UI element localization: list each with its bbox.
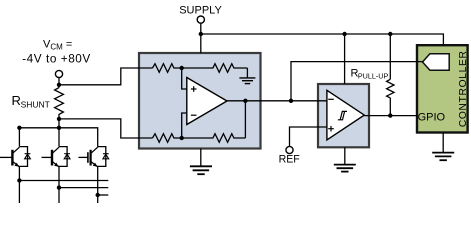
wire supply rail	[201, 34, 444, 45]
transistor Q3 (IGBT)	[79, 147, 98, 195]
terminal VCM (open circle)	[55, 70, 62, 77]
svg-text:GPIO: GPIO	[418, 111, 446, 123]
terminal SUPPLY (open circle)	[197, 16, 204, 23]
comparator U2 triangle	[327, 90, 364, 140]
transistor Q2	[42, 128, 60, 188]
node supply/comparator	[342, 32, 346, 36]
wire supply drop to amplifier box	[200, 34, 202, 53]
wire -input to op-amp	[182, 113, 187, 138]
svg-text:CONTROLLER: CONTROLLER	[458, 50, 469, 127]
node amp -input	[180, 136, 184, 140]
node phase B	[57, 185, 61, 189]
wire supply drop to comparator box	[344, 34, 346, 84]
node phase A	[17, 178, 21, 182]
wire +input to op-amp	[182, 68, 187, 89]
resistor R3 (amp input bottom)	[153, 134, 182, 143]
comparator + symbol	[328, 126, 334, 132]
node RSHUNT bottom	[57, 117, 61, 121]
ground (amp box)	[190, 166, 212, 174]
wire output to controller ADC pin	[291, 62, 423, 101]
node supply/amp	[199, 32, 203, 36]
resistor R1 (amp input top)	[153, 64, 182, 73]
resistor R2 (amp feedback top to ground)	[182, 64, 248, 73]
hysteresis symbol	[338, 111, 347, 119]
resistor R4 (amp feedback bottom)	[182, 134, 246, 143]
ground (internal, amp box)	[239, 78, 255, 84]
wire phase A	[19, 180, 108, 182]
wire emitter Q3 down	[97, 195, 99, 203]
diode D2	[59, 147, 70, 167]
svg-text:SHUNT: SHUNT	[21, 100, 50, 110]
diode D1	[19, 147, 30, 167]
diode D3	[98, 147, 109, 167]
node pull-up/GPIO	[388, 113, 392, 117]
amplifier block box U1	[139, 53, 261, 149]
comparator block box U2	[318, 84, 369, 147]
resistor RPULL-UP (vertical zigzag)	[387, 34, 394, 116]
node supply/pull-up	[388, 32, 392, 36]
node output to ADC line	[289, 99, 293, 103]
wire amp box ground lead	[200, 149, 202, 167]
svg-text:PULL-UP: PULL-UP	[358, 71, 389, 80]
wire to internal ground	[246, 68, 248, 78]
wire REF to comparator +input	[290, 127, 328, 146]
op-amp + symbol	[191, 86, 197, 92]
svg-text:R: R	[12, 93, 21, 108]
node feedback/output	[243, 99, 247, 103]
wire amp output	[227, 100, 327, 102]
wire RSHUNT top to amp +input	[59, 68, 153, 85]
wire comparator box ground lead	[344, 147, 346, 164]
ground (comparator)	[334, 165, 356, 172]
controller box	[417, 45, 468, 132]
terminal REF (open circle)	[286, 146, 293, 153]
svg-text:-4V to +80V: -4V to +80V	[22, 52, 91, 66]
wire phase C	[98, 194, 109, 196]
wire comparator output to GPIO	[364, 115, 417, 117]
ADC input pin pentagon (controller)	[423, 54, 450, 71]
node rail Q1	[17, 126, 21, 130]
node rail Q2	[57, 126, 61, 130]
wire phase B	[59, 187, 108, 189]
wire RSHUNT to collector rail	[58, 119, 60, 128]
node amp +input	[180, 66, 184, 70]
wire emitter Q1 down	[18, 181, 20, 204]
transistor Q1	[0, 128, 19, 181]
wire supply circle to rail	[200, 23, 202, 34]
svg-text:REF: REF	[279, 153, 301, 165]
wire emitter Q2 down	[58, 188, 60, 203]
comparator - symbol	[328, 98, 334, 100]
node phase C	[96, 193, 100, 197]
wire VCM circle to node	[58, 78, 60, 88]
node RSHUNT top	[57, 83, 61, 87]
wire controller ground lead	[442, 133, 444, 153]
ground (controller)	[432, 153, 454, 161]
wire feedback up to output	[244, 101, 246, 138]
wire RSHUNT bottom to amp -input	[59, 119, 153, 138]
wire collector rail	[19, 128, 97, 147]
op-amp U1 triangle	[187, 78, 227, 125]
svg-text:SUPPLY: SUPPLY	[179, 4, 222, 16]
op-amp - symbol	[191, 114, 197, 116]
resistor RSHUNT (vertical zigzag)	[55, 88, 64, 119]
